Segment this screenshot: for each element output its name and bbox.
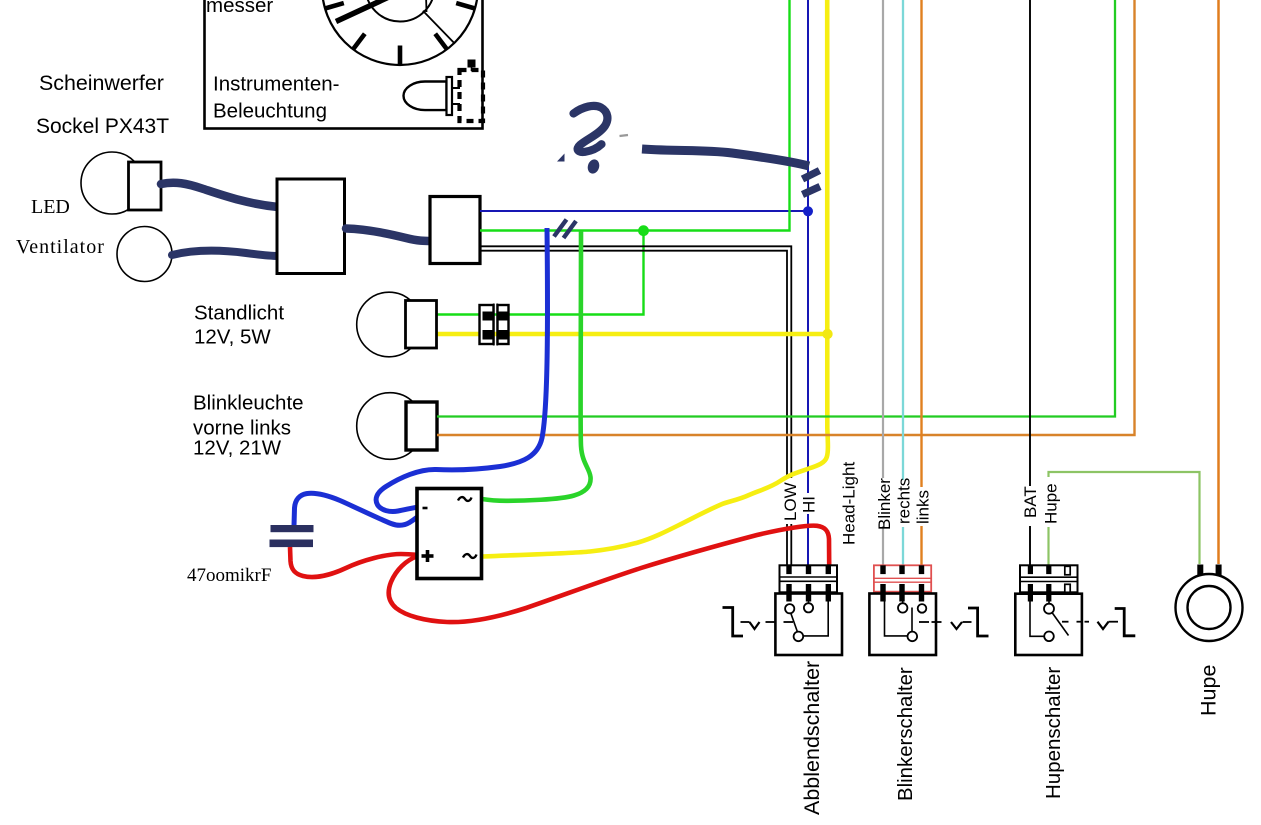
svg-text:Beleuchtung: Beleuchtung: [213, 100, 327, 123]
instrument cluster box: [205, 0, 483, 129]
wire blue thin vertical (HI) lower: [807, 514, 809, 566]
node blue junction dot: [803, 206, 813, 216]
svg-text:12V, 5W: 12V, 5W: [194, 326, 271, 349]
instrument bulb contact lines: [452, 87, 460, 89]
gauge tick 126deg: [353, 34, 365, 50]
gauge inner circle: [366, 0, 435, 22]
blinker bulb B3 glass: [357, 393, 424, 460]
gauge tick 162deg: [325, 3, 344, 8]
svg-text:Blinkerschalter: Blinkerschalter: [895, 667, 917, 801]
wire black BAT upper: [1029, 0, 1031, 486]
wire connector box to plug (navy): [346, 229, 432, 242]
blinkerschalter connector (red): [874, 565, 931, 601]
hupenschalter switch S3 box: [1015, 594, 1135, 655]
wire cyan rechts upper: [902, 0, 904, 480]
small navy triangle: [557, 154, 565, 162]
wire double black horizontal lower: [480, 251, 787, 478]
gauge tick 18deg: [456, 3, 475, 8]
svg-text:47oomikrF: 47oomikrF: [187, 565, 271, 586]
instrument bulb dome: [404, 82, 447, 111]
gauge sector radial line: [423, 11, 455, 44]
gauge tick 90deg: [398, 46, 403, 66]
standlicht bulb B2 socket: [406, 301, 437, 349]
svg-text:Head-Light: Head-Light: [840, 462, 859, 545]
horn H1 inner: [1188, 586, 1231, 629]
wire gray Blinker upper: [882, 0, 884, 478]
svg-text:Abblendschalter: Abblendschalter: [800, 661, 824, 815]
svg-text:Blinker: Blinker: [875, 478, 894, 530]
regulator U1 box: [417, 489, 482, 579]
svg-text:Hupe: Hupe: [1042, 483, 1061, 524]
standlicht connector pads: [483, 312, 494, 321]
wire blue thick from top to regulator: [376, 228, 547, 511]
wire cyan rechts lower: [902, 527, 904, 566]
hand-drawn question mark: [574, 106, 608, 152]
horn pin 1: [1197, 565, 1203, 576]
regulator plus symbol: [422, 554, 434, 558]
node yellow junction dot: [822, 329, 832, 339]
standlicht connector right shell: [498, 305, 509, 344]
instrument bulb flange: [447, 77, 453, 115]
wire green blinker branch: [437, 0, 1115, 417]
blinker bulb B3 socket: [406, 402, 437, 450]
svg-text:messer: messer: [206, 0, 273, 17]
wire double black horizontal upper: [480, 246, 791, 478]
wire black BAT lower: [1029, 526, 1031, 566]
wire orange blinker branch: [437, 0, 1135, 435]
svg-text:Ventilator: Ventilator: [16, 236, 105, 258]
horn H1 outer: [1176, 574, 1243, 641]
gauge outer circle: [322, 0, 478, 65]
blinkerschalter switch S2 box: [869, 594, 988, 656]
horn pin 2: [1216, 565, 1222, 576]
wire green thick from net to regulator: [482, 231, 591, 501]
wire green thin net with corner: [480, 0, 790, 231]
svg-text:Hupe: Hupe: [1197, 665, 1221, 716]
wire double black lower segments: [786, 524, 788, 566]
ventilator fan M1: [117, 227, 172, 282]
wire yellow vertical + curve to regulator: [482, 0, 828, 557]
wire yellow standlicht branch: [437, 332, 823, 336]
crossing slashes: [554, 220, 567, 237]
floating thick navy wire: [642, 149, 809, 166]
gauge needle: [336, 0, 419, 22]
gauge tick 54deg: [435, 34, 447, 50]
standlicht bulb B2 glass: [357, 292, 422, 357]
wire blue thin LOW/HI net horizontal: [480, 210, 806, 212]
headlight bulb B1 glass: [81, 152, 143, 214]
wire green standlicht branch: [437, 231, 644, 315]
wire red capacitor to regulator plus: [290, 547, 418, 577]
gauge sector vertical line: [425, 0, 428, 12]
instrument bulb socket square: [468, 60, 476, 68]
wire blue thin vertical (HI) upper: [807, 0, 809, 493]
svg-text:Standlicht: Standlicht: [194, 302, 284, 325]
svg-text:12V, 21W: 12V, 21W: [193, 437, 282, 460]
regulator tilde bottom: [463, 554, 477, 558]
capacitor C1 top plate: [271, 525, 314, 532]
svg-text:HI: HI: [800, 496, 819, 513]
standlicht connector left shell: [480, 305, 494, 344]
wire blue thick capacitor to regulator: [294, 493, 418, 525]
wire break marks: [803, 171, 820, 180]
question mark dot: [586, 158, 601, 175]
svg-text:Hupenschalter: Hupenschalter: [1042, 667, 1065, 799]
small gray dash: [620, 135, 629, 136]
svg-text:Blinkleuchte: Blinkleuchte: [193, 392, 304, 415]
svg-text:Scheinwerfer: Scheinwerfer: [39, 71, 164, 95]
wire orange links lower: [920, 526, 922, 566]
instrument bulb socket (dashed): [460, 70, 484, 121]
connector box K1: [277, 179, 345, 274]
regulator minus symbol: [423, 507, 428, 510]
wire orange horn vertical: [1217, 0, 1220, 564]
svg-text:Sockel PX43T: Sockel PX43T: [36, 115, 169, 138]
wire red regulator to head-light pin: [389, 526, 829, 622]
abblendschalter switch S1 box: [723, 594, 843, 656]
headlight bulb B1 socket: [129, 162, 162, 210]
wire light green horn net: [1049, 472, 1200, 564]
wire light green lower: [1047, 527, 1049, 566]
svg-text:rechts: rechts: [895, 478, 914, 524]
svg-text:LED: LED: [31, 196, 70, 218]
svg-text:BAT: BAT: [1021, 486, 1040, 518]
standlicht connector mating lines: [493, 304, 495, 346]
hupenschalter connector: [1020, 565, 1078, 601]
svg-text:LOW: LOW: [781, 482, 800, 521]
wire orange links upper: [920, 0, 922, 487]
capacitor C1 bottom plate: [270, 540, 314, 548]
plug X1: [430, 197, 480, 264]
svg-text:Instrumenten-: Instrumenten-: [213, 73, 339, 96]
wire ventilator to connector box (navy): [172, 251, 278, 256]
svg-text:links: links: [914, 490, 933, 524]
regulator tilde top: [458, 497, 472, 501]
wire gray Blinker lower: [882, 526, 884, 566]
node green junction dot: [638, 225, 649, 236]
abblendschalter connector: [780, 565, 838, 601]
wire headlight to connector box (navy): [161, 183, 278, 207]
